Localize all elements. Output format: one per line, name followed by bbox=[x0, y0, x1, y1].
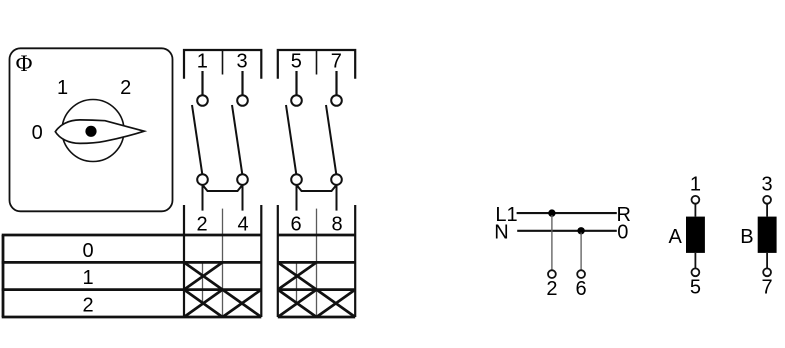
svg-text:4: 4 bbox=[237, 214, 248, 236]
svg-text:2: 2 bbox=[120, 77, 131, 99]
svg-text:0: 0 bbox=[617, 222, 628, 244]
svg-text:8: 8 bbox=[331, 214, 342, 236]
svg-text:1: 1 bbox=[82, 267, 93, 289]
svg-text:A: A bbox=[669, 226, 683, 248]
svg-text:2: 2 bbox=[82, 295, 93, 317]
svg-text:1: 1 bbox=[57, 77, 68, 99]
svg-text:3: 3 bbox=[762, 173, 773, 195]
svg-text:1: 1 bbox=[197, 50, 208, 72]
svg-text:6: 6 bbox=[290, 214, 301, 236]
svg-text:5: 5 bbox=[291, 50, 302, 72]
svg-text:2: 2 bbox=[546, 278, 557, 300]
svg-text:7: 7 bbox=[762, 277, 773, 299]
svg-text:1: 1 bbox=[690, 173, 701, 195]
svg-text:Φ: Φ bbox=[16, 51, 33, 76]
svg-text:B: B bbox=[740, 226, 753, 248]
svg-text:3: 3 bbox=[236, 50, 247, 72]
svg-text:5: 5 bbox=[690, 277, 701, 299]
svg-text:0: 0 bbox=[82, 240, 93, 262]
svg-text:7: 7 bbox=[331, 50, 342, 72]
svg-text:N: N bbox=[494, 222, 508, 244]
svg-text:6: 6 bbox=[576, 278, 587, 300]
svg-text:0: 0 bbox=[32, 122, 43, 144]
svg-text:2: 2 bbox=[196, 214, 207, 236]
